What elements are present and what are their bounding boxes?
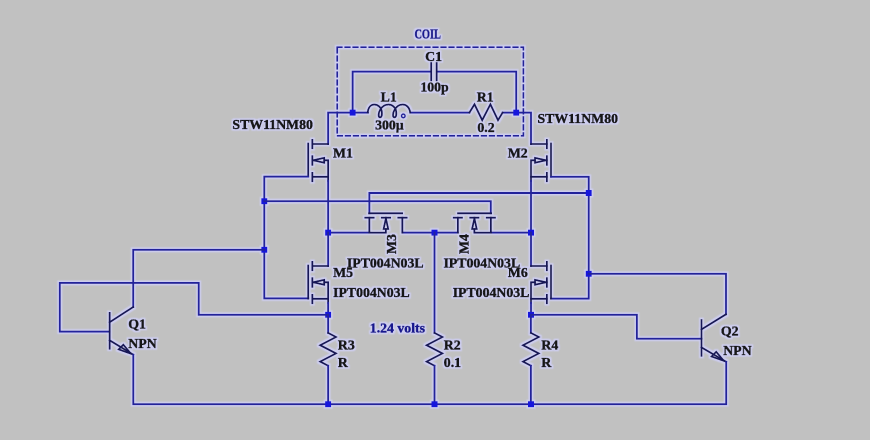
wire M1 gate to left rail	[264, 177, 308, 299]
wire C1 right leg	[438, 72, 517, 113]
resistor R1	[469, 104, 502, 120]
junction bottom R2	[432, 401, 438, 407]
transistor Q2	[702, 314, 727, 362]
svg-text:M4: M4	[456, 234, 471, 254]
svg-text:Q1: Q1	[128, 316, 146, 331]
wire bottom rail	[133, 355, 726, 405]
wire top rail left	[328, 113, 368, 144]
wire M5 source	[327, 303, 329, 315]
svg-text:Q2: Q2	[721, 324, 739, 339]
junction bottom R4	[528, 401, 534, 407]
svg-text:R4: R4	[541, 338, 558, 353]
wire M5 drain	[327, 233, 329, 266]
wire Q1 collector	[133, 250, 264, 307]
svg-text:NPN: NPN	[128, 336, 156, 351]
svg-text:NPN: NPN	[723, 343, 751, 358]
svg-text:L1: L1	[381, 89, 397, 104]
inductor L1 polarity dot	[402, 114, 406, 118]
junction right rail lower	[586, 271, 592, 277]
wire Q1 base route	[60, 283, 328, 332]
wire Q2 base route	[531, 315, 702, 339]
transistor M2	[531, 140, 551, 181]
svg-text:0.1: 0.1	[444, 355, 461, 370]
transistor Q1	[110, 307, 134, 355]
svg-text:1.24 volts: 1.24 volts	[370, 321, 426, 336]
svg-text:COIL: COIL	[414, 27, 441, 42]
junction mid left	[325, 230, 331, 236]
junction R4 top	[528, 312, 534, 318]
junction left rail lower	[261, 247, 267, 253]
wire C1 left leg	[353, 72, 431, 113]
wire R4 bottom	[530, 366, 532, 405]
svg-text:M2: M2	[508, 145, 528, 160]
svg-text:M3: M3	[384, 234, 399, 254]
wire M2 gate to right rail	[551, 177, 589, 299]
capacitor C1	[431, 63, 436, 80]
wire mid rail center	[402, 232, 458, 234]
svg-text:R1: R1	[477, 89, 494, 104]
resistor R4	[523, 333, 539, 366]
junction right rail upper	[586, 190, 592, 196]
svg-text:IPT004N03L: IPT004N03L	[347, 256, 424, 271]
resistor R3	[320, 333, 336, 366]
wire R2 top	[434, 233, 436, 333]
transistor M6	[531, 262, 551, 303]
svg-text:R3: R3	[338, 338, 355, 353]
junction left rail upper	[261, 198, 267, 204]
svg-text:R2: R2	[444, 338, 461, 353]
inductor L1	[368, 105, 411, 118]
junction mid center	[432, 230, 438, 236]
junction top left	[350, 110, 356, 116]
wire Q2 collector	[589, 274, 726, 315]
resistor R2	[427, 333, 443, 366]
transistor M5	[308, 262, 328, 303]
wire top rail right	[503, 113, 531, 144]
svg-text:M5: M5	[333, 265, 353, 280]
junction bottom R3	[325, 401, 331, 407]
transistor M3	[365, 213, 406, 232]
wire M2 source column	[530, 181, 532, 233]
svg-text:C1: C1	[425, 49, 442, 64]
transistor M1	[308, 140, 328, 181]
transistor M4	[454, 213, 495, 232]
wire R4 top	[530, 315, 532, 333]
wire M6 drain	[530, 233, 532, 266]
coil enclosure dashed box	[337, 47, 523, 136]
svg-text:IPT004N03L: IPT004N03L	[453, 285, 530, 300]
svg-text:STW11NM80: STW11NM80	[232, 117, 313, 132]
wire R3 top	[327, 315, 329, 333]
wire R3 bottom	[327, 366, 329, 405]
wire cross rail to M4 gate	[264, 201, 491, 213]
svg-text:M6: M6	[508, 265, 528, 280]
svg-text:M1: M1	[333, 146, 353, 161]
junction mid right	[528, 230, 534, 236]
svg-text:0.2: 0.2	[477, 120, 494, 135]
svg-text:100p: 100p	[420, 80, 449, 95]
wire R2 bottom	[434, 366, 436, 405]
wire M1 source column	[328, 181, 369, 233]
svg-text:R: R	[541, 355, 552, 370]
svg-text:STW11NM80: STW11NM80	[538, 111, 619, 126]
svg-text:R: R	[338, 355, 349, 370]
wire M6 source	[530, 303, 532, 315]
junction R3 top	[325, 312, 331, 318]
wire top rail mid	[410, 112, 469, 114]
junction top right	[513, 110, 519, 116]
wire mid rail right	[491, 232, 531, 234]
wire cross rail to M3 gate	[369, 193, 588, 213]
svg-text:IPT004N03L: IPT004N03L	[333, 285, 410, 300]
svg-text:300µ: 300µ	[375, 118, 404, 133]
